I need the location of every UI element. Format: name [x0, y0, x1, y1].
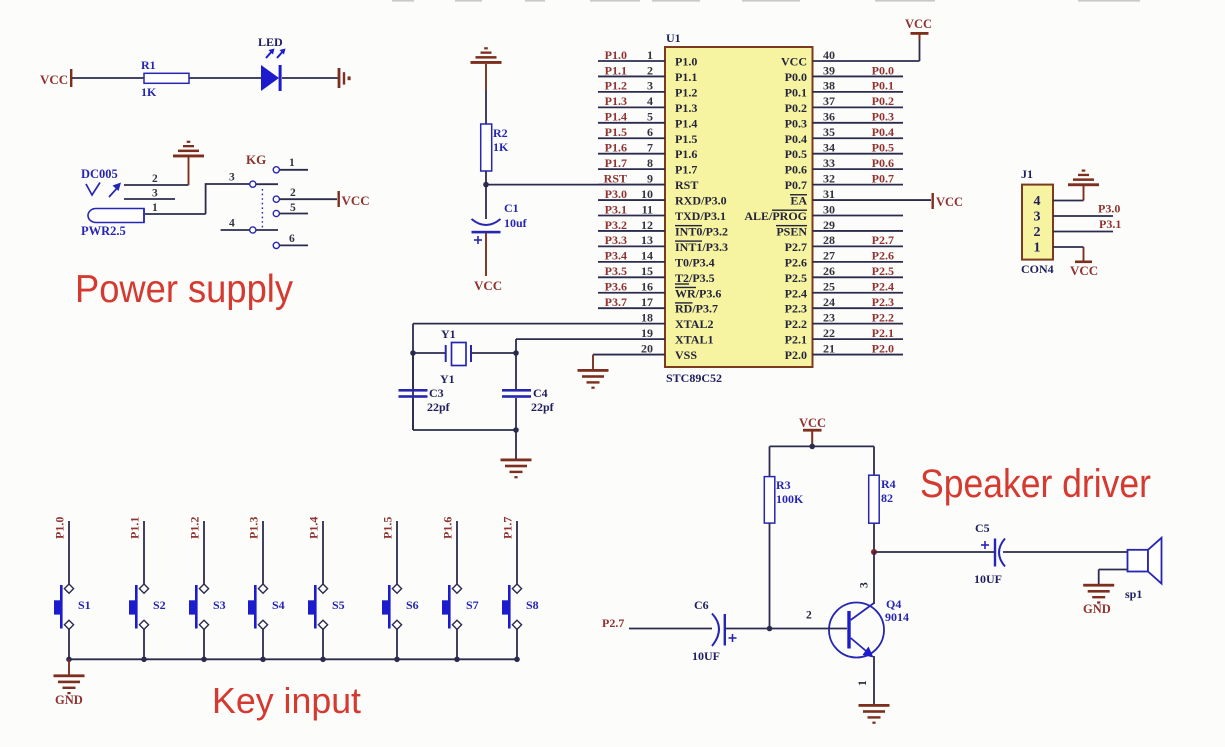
power net VCC (switch output)	[338, 191, 370, 208]
wire pin 37 (P0.2)	[813, 106, 904, 108]
wire pin 30 (ALE/PROG)	[813, 215, 904, 217]
pin name P2.7	[785, 240, 807, 254]
svg-text:P1.5: P1.5	[381, 517, 395, 539]
node rail junction	[513, 427, 519, 433]
svg-text:TXD/P3.1: TXD/P3.1	[675, 209, 726, 223]
wire pin 9 (RST)	[598, 184, 665, 186]
svg-text:4: 4	[229, 218, 235, 230]
svg-text:LED: LED	[258, 35, 283, 49]
svg-text:2: 2	[647, 63, 653, 77]
svg-text:C1: C1	[504, 201, 519, 215]
wire crystal ground rail	[413, 429, 516, 431]
wire pin 24 (P2.3)	[813, 307, 904, 309]
svg-text:P2.1: P2.1	[872, 326, 894, 340]
wire DC005 pin 2	[124, 173, 189, 185]
svg-text:P1.4: P1.4	[675, 116, 697, 130]
svg-text:P2.0: P2.0	[785, 348, 807, 362]
svg-text:Speaker driver: Speaker driver	[920, 462, 1151, 506]
connector J1 CON4	[1021, 167, 1054, 276]
resistor R2 1K	[481, 124, 509, 171]
wire pin 18 (XTAL2)	[413, 323, 665, 325]
wire P1.0 to switch S1	[68, 521, 70, 584]
svg-text:P1.4: P1.4	[605, 110, 627, 124]
svg-text:RXD/P3.0: RXD/P3.0	[675, 194, 727, 208]
pin name P0.3	[785, 116, 807, 130]
svg-text:18: 18	[641, 310, 653, 324]
ground (DC005 pin 2)	[173, 141, 204, 185]
svg-text:21: 21	[823, 341, 835, 355]
wire R3 to base node	[769, 523, 771, 628]
svg-text:5: 5	[647, 110, 653, 124]
svg-text:VCC: VCC	[1070, 263, 1098, 278]
pin name T2/P3.5	[675, 271, 715, 285]
svg-text:P3.0: P3.0	[605, 187, 627, 201]
wire J1 pin 2 P3.1	[1053, 231, 1113, 233]
wire XTAL2 drop	[412, 324, 414, 430]
svg-text:P1.7: P1.7	[501, 517, 515, 539]
wire P1.7 to switch S8	[516, 521, 518, 584]
svg-text:15: 15	[641, 264, 653, 278]
svg-text:P1.5: P1.5	[675, 132, 697, 146]
wire pin 33 (P0.6)	[813, 168, 904, 170]
svg-text:VSS: VSS	[675, 348, 697, 362]
svg-text:16: 16	[641, 280, 653, 294]
svg-text:S3: S3	[213, 598, 226, 612]
wire pin 4 (P1.3)	[598, 106, 665, 108]
svg-text:GND: GND	[55, 693, 83, 707]
wire output to C5	[874, 551, 995, 553]
svg-text:C3: C3	[429, 386, 444, 400]
wire pin 40 (VCC)	[813, 60, 920, 62]
svg-text:C6: C6	[694, 598, 709, 612]
wire pin 6 (P1.5)	[598, 137, 665, 139]
wire LED to ground	[282, 77, 338, 79]
svg-text:P0.3: P0.3	[785, 116, 807, 130]
svg-text:P1.3: P1.3	[247, 517, 261, 539]
svg-text:P2.4: P2.4	[785, 286, 807, 300]
wire P2.7 to C6	[629, 628, 712, 630]
svg-text:24: 24	[823, 295, 835, 309]
resistor R1 1K	[141, 58, 189, 99]
svg-text:T0/P3.4: T0/P3.4	[675, 255, 715, 269]
svg-text:P1.0: P1.0	[53, 517, 67, 539]
svg-text:34: 34	[823, 141, 835, 155]
ground (pin 20 VSS)	[578, 355, 609, 389]
ground (speaker) GND	[1083, 584, 1114, 616]
wire P1.1 to switch S2	[143, 521, 145, 584]
svg-text:VCC: VCC	[936, 195, 963, 209]
svg-text:PWR2.5: PWR2.5	[81, 224, 126, 238]
pin name P0.2	[785, 101, 807, 115]
svg-text:S2: S2	[153, 598, 166, 612]
svg-text:22pf: 22pf	[427, 400, 451, 414]
wire pin 11 (TXD/P3.1)	[598, 215, 665, 217]
svg-text:1: 1	[1034, 241, 1041, 256]
capacitor C5 10UF	[974, 521, 1005, 586]
svg-text:P1.6: P1.6	[675, 147, 697, 161]
switch KG	[246, 152, 278, 233]
wire rail to R3	[769, 446, 771, 476]
ground (key bus) GND	[54, 659, 85, 707]
svg-text:S7: S7	[466, 598, 479, 612]
wire pin 3 (P1.2)	[598, 91, 665, 93]
wire KG pin 4	[221, 218, 250, 231]
pin name P0.4	[785, 132, 807, 146]
wire jack to switch KG	[206, 172, 250, 215]
pin name ALE/PROG	[744, 209, 807, 223]
wire S3 to bus	[203, 629, 205, 659]
svg-text:PSEN: PSEN	[776, 224, 807, 238]
wire DC005 pin 1	[145, 202, 206, 214]
svg-text:P0.7: P0.7	[872, 171, 894, 185]
pin name P1.0	[675, 55, 697, 69]
junction S6	[394, 657, 400, 663]
svg-text:P0.2: P0.2	[785, 101, 807, 115]
svg-text:VCC: VCC	[342, 193, 370, 208]
svg-text:VCC: VCC	[474, 278, 502, 293]
pin name PSEN	[776, 224, 807, 238]
wire S6 to bus	[396, 629, 398, 659]
svg-text:P3.4: P3.4	[605, 249, 627, 263]
wire pin 10 (RXD/P3.0)	[598, 199, 665, 201]
pin name P1.1	[675, 70, 697, 84]
wire R1 to LED	[189, 77, 262, 79]
wire S8 to bus	[516, 629, 518, 659]
svg-text:10uf: 10uf	[504, 216, 528, 230]
svg-text:P0.2: P0.2	[872, 94, 894, 108]
wire pin 36 (P0.3)	[813, 122, 904, 124]
svg-text:P2.3: P2.3	[872, 295, 894, 309]
wire S4 to bus	[262, 629, 264, 659]
svg-text:P1.1: P1.1	[128, 517, 142, 539]
pin name P2.0	[785, 348, 807, 362]
wire node to C1	[485, 185, 487, 219]
svg-text:DC005: DC005	[81, 167, 118, 181]
wire XTAL1 drop	[515, 339, 517, 389]
barrel PWR2.5	[81, 209, 144, 239]
svg-text:S1: S1	[78, 598, 91, 612]
svg-text:R1: R1	[141, 58, 156, 72]
svg-text:P0.5: P0.5	[872, 141, 894, 155]
pin name T0/P3.4	[675, 255, 715, 269]
svg-text:P0.4: P0.4	[872, 125, 894, 139]
wire crystal left	[413, 352, 446, 354]
svg-text:1: 1	[152, 202, 158, 214]
wire ground to R2	[485, 90, 487, 124]
wire pin 5 (P1.4)	[598, 122, 665, 124]
power net VCC (J1 pin 1)	[1070, 247, 1098, 278]
wire pin 28 (P2.7)	[813, 245, 904, 247]
IC U1 STC89C52	[665, 31, 813, 385]
switch S7	[442, 584, 479, 629]
LED D1	[258, 35, 286, 91]
wire pin 22 (P2.1)	[813, 338, 904, 340]
svg-text:31: 31	[823, 187, 835, 201]
pin name P2.1	[785, 333, 807, 347]
wire pin 2 (P1.1)	[598, 75, 665, 77]
svg-text:2: 2	[806, 610, 812, 622]
wire pin 29 (PSEN)	[813, 230, 904, 232]
svg-text:P2.3: P2.3	[785, 302, 807, 316]
pin name P0.0	[785, 70, 807, 84]
pin name RXD/P3.0	[675, 194, 727, 208]
junction S4	[260, 657, 266, 663]
svg-text:3: 3	[152, 188, 158, 200]
svg-text:12: 12	[641, 218, 653, 232]
wire R4 to output node	[873, 523, 875, 552]
power net VCC (driver)	[799, 416, 826, 446]
svg-text:S6: S6	[406, 598, 419, 612]
pin name P1.7	[675, 163, 697, 177]
svg-text:Key input: Key input	[212, 680, 361, 721]
wire speaker return	[1099, 570, 1128, 585]
svg-text:9: 9	[647, 171, 653, 185]
svg-text:32: 32	[823, 171, 835, 185]
svg-text:P2.1: P2.1	[785, 333, 807, 347]
resistor R4 82	[869, 475, 896, 523]
pin name P1.6	[675, 147, 697, 161]
svg-text:3: 3	[647, 79, 653, 93]
svg-text:VCC: VCC	[781, 55, 807, 69]
node crystal right junction	[513, 350, 519, 356]
svg-text:GND: GND	[1083, 602, 1111, 616]
svg-text:S5: S5	[332, 598, 345, 612]
svg-text:22: 22	[823, 326, 835, 340]
svg-text:P0.7: P0.7	[785, 178, 807, 192]
wire emitter to ground	[857, 656, 874, 704]
svg-text:1K: 1K	[493, 140, 509, 154]
ground (J1 pin 4)	[1068, 170, 1099, 201]
pin name P1.4	[675, 116, 697, 130]
switch S6	[382, 584, 419, 629]
svg-text:P2.5: P2.5	[785, 271, 807, 285]
wire C3 top	[412, 353, 414, 389]
pin name P1.3	[675, 101, 697, 115]
svg-text:R2: R2	[493, 126, 508, 140]
svg-text:P2.7: P2.7	[785, 240, 807, 254]
wire P1.5 to switch S6	[396, 521, 398, 584]
wire pin 12 (INT0/P3.2)	[598, 230, 665, 232]
svg-text:S8: S8	[526, 598, 539, 612]
svg-text:P1.4: P1.4	[307, 517, 321, 539]
svg-text:P1.1: P1.1	[605, 63, 627, 77]
svg-text:R4: R4	[881, 477, 896, 491]
svg-text:WR/P3.6: WR/P3.6	[675, 286, 721, 300]
ground (LED cathode, rotated)	[338, 68, 351, 88]
svg-text:40: 40	[823, 48, 835, 62]
svg-text:1: 1	[647, 48, 653, 62]
svg-text:9014: 9014	[885, 610, 909, 624]
power net VCC (pin 40)	[905, 17, 932, 40]
svg-text:RD/P3.7: RD/P3.7	[675, 302, 718, 316]
svg-text:4: 4	[1034, 194, 1041, 209]
wire base	[770, 610, 848, 629]
svg-text:RST: RST	[604, 171, 627, 185]
node RST junction	[483, 182, 489, 188]
pin name EA	[790, 194, 807, 208]
wire P1.2 to switch S3	[203, 521, 205, 584]
svg-text:P2.6: P2.6	[785, 255, 807, 269]
node output junction	[871, 549, 877, 555]
power net VCC (R1 feed)	[40, 69, 72, 87]
svg-text:3: 3	[1034, 210, 1041, 225]
switch S2	[129, 584, 166, 629]
svg-text:2: 2	[152, 173, 158, 185]
junction S1	[66, 657, 72, 663]
svg-text:38: 38	[823, 79, 835, 93]
wire C6 to base node	[726, 628, 770, 630]
svg-text:sp1: sp1	[1125, 587, 1142, 601]
svg-text:P2.2: P2.2	[785, 317, 807, 331]
svg-text:22pf: 22pf	[531, 400, 555, 414]
svg-text:37: 37	[823, 94, 835, 108]
wire pin 14 (T0/P3.4)	[598, 261, 665, 263]
wire VCC rail	[770, 445, 875, 447]
wire (cropped top remnants)	[392, 0, 1140, 2]
svg-text:VCC: VCC	[905, 17, 932, 31]
pin name VCC	[781, 55, 807, 69]
svg-text:P3.2: P3.2	[605, 218, 627, 232]
svg-text:XTAL1: XTAL1	[675, 333, 713, 347]
junction S2	[141, 657, 147, 663]
pin name P2.2	[785, 317, 807, 331]
svg-text:S4: S4	[272, 598, 285, 612]
svg-text:23: 23	[823, 310, 835, 324]
svg-text:10UF: 10UF	[692, 649, 720, 663]
wire rail to ground	[515, 430, 517, 459]
switch S8	[502, 584, 539, 629]
svg-text:35: 35	[823, 125, 835, 139]
svg-text:ALE/PROG: ALE/PROG	[744, 209, 807, 223]
svg-text:P3.1: P3.1	[1099, 217, 1121, 231]
wire pin 20 (VSS)	[593, 354, 665, 356]
wire KG pin 6	[273, 233, 308, 248]
junction S5	[320, 657, 326, 663]
svg-text:17: 17	[641, 295, 653, 309]
wire crystal right	[471, 352, 516, 354]
svg-text:5: 5	[290, 202, 296, 214]
svg-text:P1.0: P1.0	[675, 55, 697, 69]
pin name P2.6	[785, 255, 807, 269]
svg-text:11: 11	[642, 202, 653, 216]
svg-text:P2.7: P2.7	[602, 616, 624, 630]
wire C5 to speaker	[1003, 551, 1128, 553]
svg-text:29: 29	[823, 218, 835, 232]
wire C1 to VCC	[485, 233, 487, 276]
capacitor C4 22pf	[502, 386, 555, 414]
svg-text:6: 6	[289, 233, 295, 245]
svg-text:P1.3: P1.3	[605, 94, 627, 108]
junction S3	[201, 657, 207, 663]
svg-text:7: 7	[647, 141, 653, 155]
wire pin 32 (P0.7)	[813, 184, 904, 186]
wire pin 21 (P2.0)	[813, 354, 904, 356]
svg-text:EA: EA	[790, 194, 807, 208]
svg-text:20: 20	[641, 341, 653, 355]
svg-text:4: 4	[647, 94, 653, 108]
wire key common bus	[69, 658, 517, 660]
wire R2 to node RST	[485, 171, 487, 185]
resistor R3 100K	[764, 477, 804, 523]
svg-text:1: 1	[289, 157, 295, 169]
pin name P0.7	[785, 178, 807, 192]
wire J1 pin 1 to VCC	[1053, 246, 1084, 248]
svg-text:Y1: Y1	[441, 327, 456, 341]
svg-text:P3.3: P3.3	[605, 233, 627, 247]
svg-text:P1.6: P1.6	[605, 141, 627, 155]
crystal Y1	[440, 327, 471, 386]
svg-text:P1.2: P1.2	[675, 85, 697, 99]
wire S2 to bus	[143, 629, 145, 659]
svg-text:VCC: VCC	[40, 72, 68, 87]
svg-text:25: 25	[823, 280, 835, 294]
svg-text:VCC: VCC	[799, 416, 826, 430]
pin name P0.5	[785, 147, 807, 161]
switch S3	[189, 584, 226, 629]
svg-text:P1.2: P1.2	[188, 517, 202, 539]
svg-text:Power supply: Power supply	[75, 268, 293, 311]
wire J1 pin 4 to ground	[1053, 200, 1084, 202]
ground (above R2)	[471, 47, 502, 90]
wire pin 7 (P1.6)	[598, 153, 665, 155]
pin name RST	[675, 178, 698, 192]
pin name P1.5	[675, 132, 697, 146]
wire pin 35 (P0.4)	[813, 137, 904, 139]
pin name WR/P3.6	[675, 286, 721, 300]
svg-text:P1.3: P1.3	[675, 101, 697, 115]
capacitor C6 10UF	[692, 598, 737, 663]
svg-text:Q4: Q4	[886, 597, 901, 611]
junction S7	[454, 657, 460, 663]
capacitor C1 10uf	[472, 201, 528, 244]
svg-text:P0.5: P0.5	[785, 147, 807, 161]
wire pin 39 (P0.0)	[813, 75, 904, 77]
wire pin 40 to VCC	[919, 37, 921, 61]
svg-text:J1: J1	[1021, 167, 1033, 181]
svg-text:P3.0: P3.0	[1098, 202, 1120, 216]
power net VCC (pin 31 EA)	[932, 193, 964, 209]
pin name XTAL2	[675, 317, 713, 331]
svg-text:39: 39	[823, 63, 835, 77]
svg-text:P1.5: P1.5	[605, 125, 627, 139]
wire DC005 pin 3	[124, 188, 175, 200]
wire pin 25 (P2.4)	[813, 292, 904, 294]
wire VCC to R1	[72, 77, 144, 79]
pin name P2.5	[785, 271, 807, 285]
svg-text:1: 1	[857, 680, 869, 686]
pin name RD/P3.7	[675, 302, 718, 316]
switch S5	[308, 584, 345, 629]
wire S7 to bus	[456, 629, 458, 659]
svg-text:RST: RST	[675, 178, 698, 192]
svg-text:P2.2: P2.2	[872, 310, 894, 324]
wire P1.6 to switch S7	[456, 521, 458, 584]
svg-text:STC89C52: STC89C52	[666, 371, 722, 385]
svg-text:P2.6: P2.6	[872, 249, 894, 263]
svg-text:13: 13	[641, 233, 653, 247]
wire pin 34 (P0.5)	[813, 153, 904, 155]
pin name XTAL1	[675, 333, 713, 347]
svg-text:P2.7: P2.7	[872, 233, 894, 247]
svg-text:P2.0: P2.0	[872, 341, 894, 355]
wire rail to R4	[873, 446, 875, 475]
wire node to pin 9 RST	[486, 184, 665, 186]
svg-text:P2.5: P2.5	[872, 264, 894, 278]
wire pin 13 (INT1/P3.3)	[598, 245, 665, 247]
svg-text:P1.0: P1.0	[605, 48, 627, 62]
svg-text:26: 26	[823, 264, 835, 278]
pin name P2.3	[785, 302, 807, 316]
